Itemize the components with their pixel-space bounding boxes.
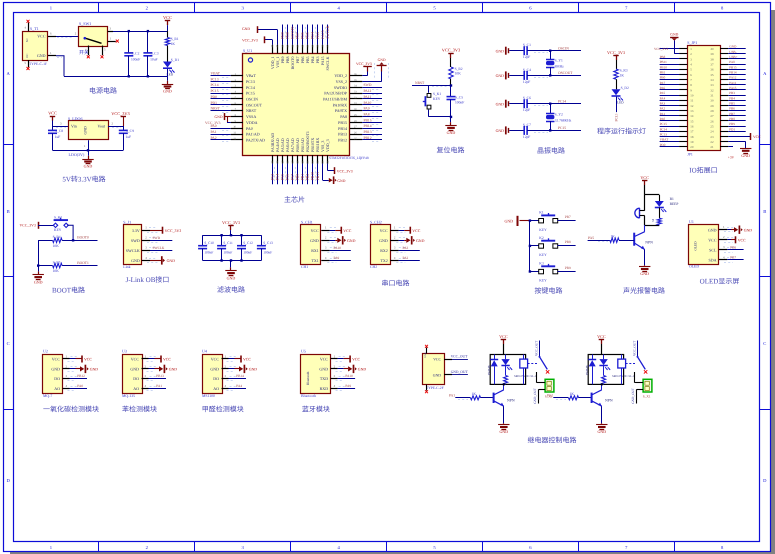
svg-text:AO: AO [213,386,219,391]
svg-text:VDD_2: VDD_2 [334,73,347,78]
svg-text:25: 25 [710,125,714,129]
svg-text:GND: GND [499,429,508,434]
svg-text:J-Link OB接口: J-Link OB接口 [126,276,170,284]
svg-text:PB7: PB7 [565,215,571,219]
svg-text:PA8: PA8 [340,114,347,119]
svg-text:VCC: VCC [499,334,508,339]
svg-text:PB15: PB15 [364,118,372,122]
svg-text:VCC: VCC [753,135,761,139]
svg-text:NRST: NRST [415,81,425,85]
svg-text:1K: 1K [472,392,477,396]
svg-text:VCC: VCC [211,357,220,362]
svg-text:JP1: JP1 [687,152,693,156]
svg-text:PB4: PB4 [729,96,735,100]
svg-text:IO拓展口: IO拓展口 [689,166,717,174]
svg-text:PC14: PC14 [660,127,668,131]
svg-text:OSCIN: OSCIN [246,97,258,102]
svg-text:K3: K3 [539,262,544,266]
svg-text:TYPE-C-1F: TYPE-C-1F [29,62,47,66]
svg-text:甲醛检测模块: 甲醛检测模块 [202,406,244,414]
svg-text:VCC: VCC [311,228,320,233]
svg-text:35: 35 [710,73,714,77]
svg-text:VCC_3V3: VCC_3V3 [654,47,668,51]
svg-text:VCC: VCC [352,358,360,362]
svg-text:PB11: PB11 [316,172,320,180]
svg-text:S_C13: S_C13 [263,241,273,245]
svg-text:PA0: PA0 [660,117,666,121]
svg-text:S_U1: S_U1 [243,48,252,53]
svg-text:PA2TX\AD: PA2TX\AD [246,137,265,142]
svg-text:VCC: VCC [380,228,389,233]
svg-text:10K: 10K [455,72,462,76]
svg-text:PB6: PB6 [729,107,735,111]
svg-text:S_SW1: S_SW1 [79,21,91,26]
svg-text:PA11: PA11 [729,81,736,85]
svg-text:VCC_3V3: VCC_3V3 [242,38,258,42]
svg-text:S_D2: S_D2 [621,86,629,90]
svg-text:KEY: KEY [54,228,62,232]
svg-text:Vin: Vin [71,124,77,129]
svg-text:SWDIO: SWDIO [334,85,347,90]
svg-text:RX2: RX2 [380,248,388,253]
svg-text:GND: GND [744,228,753,232]
svg-text:NRST: NRST [246,108,257,113]
svg-text:GND: GND [347,239,356,243]
svg-text:电源电路: 电源电路 [89,87,117,95]
svg-text:GND: GND [729,45,737,49]
svg-text:晶振电路: 晶振电路 [537,147,565,155]
svg-text:PC14: PC14 [246,85,255,90]
svg-text:苯检测模块: 苯检测模块 [122,406,157,414]
svg-text:PA12: PA12 [364,89,372,93]
svg-text:10K: 10K [53,244,60,248]
svg-text:主芯片: 主芯片 [284,196,305,204]
svg-text:SWD: SWD [131,238,140,243]
svg-text:S_R1: S_R1 [171,37,179,41]
svg-text:S_JP1: S_JP1 [687,40,697,45]
svg-text:PB12: PB12 [338,137,347,142]
svg-text:滤波电路: 滤波电路 [217,286,245,294]
svg-text:PB13: PB13 [364,130,372,134]
svg-text:PB9: PB9 [729,122,735,126]
svg-text:PD0: PD0 [660,143,666,147]
svg-text:38: 38 [710,57,714,61]
svg-text:OLED: OLED [694,241,698,251]
svg-text:TX2: TX2 [380,258,387,263]
svg-text:VBAT: VBAT [660,138,669,142]
svg-text:S_C12: S_C12 [243,241,253,245]
svg-text:PA2: PA2 [660,107,666,111]
svg-text:GND: GND [310,238,319,243]
svg-text:PB6: PB6 [301,32,305,39]
svg-text:1K: 1K [171,42,176,46]
svg-text:10: 10 [690,94,694,98]
svg-text:PC15: PC15 [660,122,668,126]
svg-text:21: 21 [710,145,714,149]
svg-text:PB8: PB8 [565,240,571,244]
svg-text:U1: U1 [689,219,694,224]
svg-text:SCL: SCL [709,247,717,252]
svg-text:Bluetooth: Bluetooth [306,371,310,385]
svg-text:SWCLK: SWCLK [326,25,330,39]
svg-text:PB12: PB12 [77,374,85,378]
svg-text:GND: GND [496,129,505,133]
svg-text:PB8: PB8 [660,55,666,59]
svg-text:8MHz: 8MHz [555,65,565,69]
svg-text:Vout: Vout [98,124,106,129]
svg-text:VCC: VCC [433,358,441,362]
svg-text:100nF: 100nF [204,251,213,255]
svg-text:PA15: PA15 [321,30,325,38]
svg-text:VCC: VCC [163,358,171,362]
svg-text:PB13: PB13 [156,374,164,378]
svg-text:GND: GND [358,368,367,372]
svg-text:继电器控制电路: 继电器控制电路 [528,436,577,444]
svg-text:PB15: PB15 [729,65,737,69]
svg-text:PB12: PB12 [364,136,372,140]
svg-text:15: 15 [690,119,694,123]
svg-text:S_R2: S_R2 [455,67,463,71]
svg-text:PA1: PA1 [156,384,162,388]
svg-text:GND: GND [131,258,140,263]
svg-text:PB0: PB0 [296,174,300,181]
svg-text:DO: DO [133,376,139,381]
svg-text:GND: GND [741,153,750,158]
svg-text:19: 19 [690,140,694,144]
svg-text:PB6: PB6 [730,246,736,250]
svg-text:PB14: PB14 [236,374,244,378]
svg-text:NC: NC [26,54,29,58]
svg-text:PA7: PA7 [291,174,295,181]
svg-text:U4: U4 [202,349,207,354]
svg-text:GND: GND [34,279,43,284]
svg-text:USB-: USB- [729,50,737,54]
svg-text:1uF: 1uF [55,135,61,139]
svg-text:27: 27 [710,114,714,118]
svg-text:GND: GND [379,238,388,243]
svg-text:PB13: PB13 [338,132,347,137]
svg-text:NPN: NPN [507,399,515,403]
svg-text:声光报警电路: 声光报警电路 [623,287,665,295]
svg-text:VCC: VCC [84,358,92,362]
svg-text:VBaT: VBaT [246,73,256,78]
svg-text:CH2: CH2 [370,265,377,269]
svg-text:PB7: PB7 [729,112,735,116]
svg-text:PA10: PA10 [345,374,353,378]
svg-text:PA2: PA2 [547,393,553,397]
svg-text:LED: LED [617,101,624,105]
svg-text:VCC_3V3: VCC_3V3 [607,50,625,55]
svg-text:GND: GND [433,374,441,378]
svg-text:U5: U5 [301,349,306,354]
svg-text:PB14: PB14 [338,126,347,131]
svg-text:PA9: PA9 [334,256,340,260]
svg-text:34: 34 [710,78,714,82]
svg-text:VCC: VCC [738,238,746,242]
svg-text:VCC: VCC [708,237,717,242]
svg-text:VSSA: VSSA [246,114,256,119]
svg-text:37: 37 [710,63,714,67]
svg-text:3.3V: 3.3V [132,228,140,233]
svg-text:OLED显示屏: OLED显示屏 [700,278,740,286]
svg-text:BOOT0: BOOT0 [291,26,295,38]
svg-text:S_CH2: S_CH2 [370,220,382,225]
svg-text:S_K1: S_K1 [433,92,441,96]
svg-text:GND_OUT: GND_OUT [451,370,469,374]
svg-text:PC13: PC13 [211,77,219,81]
svg-text:OLED: OLED [689,265,699,269]
svg-text:GND: GND [249,368,258,372]
svg-text:NC: NC [26,38,29,42]
svg-text:PA9: PA9 [364,107,370,111]
svg-text:100nF: 100nF [131,57,140,61]
svg-text:GND: GND [84,164,93,169]
svg-text:36: 36 [710,68,714,72]
svg-text:GND: GND [378,58,386,62]
svg-text:PA5: PA5 [281,174,285,181]
svg-text:MQ-135: MQ-135 [122,394,135,398]
svg-text:K2: K2 [539,236,544,240]
svg-text:VCC_3V3: VCC_3V3 [165,229,182,233]
svg-text:PA5: PA5 [588,236,594,240]
svg-text:PA5: PA5 [660,91,666,95]
svg-text:PA4: PA4 [660,96,666,100]
svg-text:24: 24 [710,130,714,134]
svg-text:PB0: PB0 [660,76,666,80]
svg-text:PB9: PB9 [565,266,571,270]
svg-text:PC14: PC14 [211,83,219,87]
svg-text:PB7: PB7 [296,32,300,39]
svg-text:程序运行指示灯: 程序运行指示灯 [597,127,646,135]
svg-text:GND: GND [319,367,328,372]
svg-text:Link: Link [123,265,130,269]
svg-text:VCC: VCC [163,15,172,20]
svg-text:12pF: 12pF [523,108,530,112]
svg-text:12pF: 12pF [523,80,530,84]
svg-text:PC13: PC13 [614,113,618,121]
svg-text:PA9: PA9 [345,384,351,388]
svg-text:32.768KHz: 32.768KHz [555,119,572,123]
svg-text:PA6: PA6 [286,174,290,181]
svg-text:PC13: PC13 [660,133,668,137]
svg-text:BOOT0: BOOT0 [77,236,89,240]
svg-text:MS1100: MS1100 [202,394,215,398]
svg-text:VCC: VCC [343,229,351,233]
svg-text:PB3: PB3 [729,91,735,95]
svg-text:PA0: PA0 [246,126,253,131]
svg-text:PA12USB/DP: PA12USB/DP [324,91,348,96]
svg-text:18: 18 [690,135,694,139]
svg-text:PA3: PA3 [660,102,666,106]
svg-text:PB4: PB4 [311,32,315,39]
svg-text:GND: GND [416,239,425,243]
svg-text:GND: GND [215,115,223,119]
svg-text:PC13: PC13 [246,79,255,84]
svg-text:S_D1: S_D1 [171,58,179,62]
svg-text:30: 30 [710,99,714,103]
svg-text:一氧化碳检测模块: 一氧化碳检测模块 [43,406,99,414]
svg-text:PB15: PB15 [338,120,347,125]
svg-text:GND: GND [169,368,178,372]
svg-text:VCC: VCC [640,175,649,180]
svg-text:S_C4: S_C4 [523,68,531,72]
svg-text:GND: GND [210,367,219,372]
svg-text:BEEP: BEEP [670,202,679,206]
svg-text:1K: 1K [611,234,616,238]
svg-text:U2: U2 [43,349,48,354]
svg-text:VCC_3V3: VCC_3V3 [111,111,129,116]
svg-text:GND: GND [337,179,345,183]
svg-text:GND: GND [167,259,176,263]
svg-text:GND: GND [496,102,505,106]
svg-text:复位电路: 复位电路 [437,146,465,154]
svg-text:PA10: PA10 [334,246,342,250]
svg-text:S_C5: S_C5 [455,95,463,99]
svg-text:PA1: PA1 [211,130,217,134]
svg-text:GND: GND [90,368,99,372]
svg-text:PB8: PB8 [729,117,735,121]
svg-text:GND: GND [496,74,505,78]
svg-text:PA9TX: PA9TX [335,108,347,113]
svg-text:PA1: PA1 [660,112,666,116]
svg-text:32: 32 [710,88,714,92]
svg-text:PA2: PA2 [403,256,409,260]
svg-text:DO: DO [213,376,219,381]
svg-text:PB9: PB9 [281,32,285,39]
svg-text:PD1: PD1 [729,127,735,131]
svg-text:S_C3: S_C3 [151,52,159,56]
svg-text:PA8: PA8 [364,112,370,116]
svg-text:PB10: PB10 [311,172,315,181]
svg-text:GND: GND [51,367,60,372]
svg-text:VCC: VCC [597,334,606,339]
svg-text:RX1: RX1 [311,248,319,253]
svg-text:VCC_OUT: VCC_OUT [535,341,539,356]
svg-text:PB7: PB7 [730,256,736,260]
svg-text:1N4148: 1N4148 [585,365,589,375]
svg-text:16: 16 [690,125,694,129]
svg-text:PA0: PA0 [77,384,83,388]
svg-text:GND: GND [670,33,678,37]
svg-text:GND_OUT: GND_OUT [533,388,537,404]
svg-text:100nF: 100nF [243,251,252,255]
svg-text:22: 22 [710,140,714,144]
svg-text:VSS_2: VSS_2 [336,79,347,84]
svg-text:AO: AO [133,386,139,391]
svg-text:TYPE-C-2F: TYPE-C-2F [426,386,444,390]
svg-text:按键电路: 按键电路 [535,287,563,295]
svg-text:S_C8: S_C8 [55,129,63,133]
svg-text:SWD: SWD [153,236,161,240]
svg-text:USB+: USB+ [729,55,737,59]
svg-text:PA3: PA3 [271,174,275,181]
svg-text:12pF: 12pF [523,55,530,59]
svg-text:GND: GND [640,271,649,276]
svg-text:S_C11: S_C11 [223,241,233,245]
svg-text:PB14: PB14 [364,124,372,128]
svg-text:TXD: TXD [320,376,328,381]
svg-text:NPN: NPN [605,399,613,403]
svg-text:GND: GND [447,130,456,135]
svg-text:S_R5: S_R5 [53,261,61,265]
svg-text:10uF: 10uF [150,57,157,61]
svg-text:PA8: PA8 [729,60,735,64]
svg-text:17: 17 [690,130,694,134]
svg-text:20: 20 [690,145,694,149]
svg-text:GND: GND [242,27,250,31]
svg-text:PB11: PB11 [660,60,668,64]
svg-text:GND: GND [163,89,172,94]
svg-text:VCC: VCC [412,229,420,233]
svg-text:S_T1: S_T1 [30,26,39,31]
svg-text:S_X1: S_X1 [643,395,651,399]
svg-text:PC15: PC15 [211,89,219,93]
svg-text:PA10: PA10 [364,101,372,105]
svg-text:GND: GND [505,219,514,224]
svg-text:GND: GND [84,126,88,134]
svg-text:VCC: VCC [131,357,140,362]
svg-text:S_C2: S_C2 [131,52,139,56]
svg-text:S_K2: S_K2 [54,215,62,219]
svg-text:1K: 1K [570,392,575,396]
svg-text:VCC_OUT: VCC_OUT [451,354,468,358]
svg-text:12pF: 12pF [523,135,530,139]
svg-text:PA10RX: PA10RX [333,102,347,107]
svg-text:PB5: PB5 [306,32,310,39]
svg-text:KEY: KEY [433,97,441,101]
svg-text:S_C7: S_C7 [523,123,531,127]
svg-text:SWD: SWD [364,83,372,87]
svg-text:PB3: PB3 [316,32,320,39]
svg-text:VBAT: VBAT [211,72,221,76]
svg-text:SDA: SDA [708,258,716,263]
svg-text:100nF: 100nF [455,101,464,105]
svg-text:VCC: VCC [243,358,251,362]
svg-text:AO: AO [54,386,60,391]
svg-text:BOOT1: BOOT1 [77,261,89,265]
svg-text:PA0: PA0 [211,124,217,128]
svg-text:S_CH1: S_CH1 [301,220,313,225]
svg-text:VCC_3V3: VCC_3V3 [442,48,460,53]
svg-text:28: 28 [710,109,714,113]
svg-text:+3V: +3V [728,156,735,160]
svg-text:12: 12 [690,104,694,108]
svg-text:33: 33 [710,83,714,87]
svg-text:PA12: PA12 [729,76,737,80]
svg-text:PB10: PB10 [660,65,668,69]
svg-text:SRD-05VDC-SL-C: SRD-05VDC-SL-C [612,374,635,378]
svg-text:S_Y1: S_Y1 [555,58,563,62]
svg-text:PA15: PA15 [729,86,737,90]
svg-text:K1: K1 [539,211,544,215]
svg-text:M: M [651,219,655,222]
svg-text:PB1: PB1 [660,71,666,75]
svg-text:PC15: PC15 [558,126,566,130]
svg-text:S_J1: S_J1 [123,220,131,225]
svg-text:1K: 1K [620,73,625,77]
svg-text:S_R4: S_R4 [53,235,61,239]
svg-text:PC15: PC15 [246,91,255,96]
svg-text:STM32F103C8T6_LQFP48: STM32F103C8T6_LQFP48 [329,156,369,160]
svg-text:PB5: PB5 [729,102,735,106]
svg-text:Bluetooth: Bluetooth [301,394,316,398]
svg-text:5V转3.3V电路: 5V转3.3V电路 [62,176,105,184]
svg-text:CH1: CH1 [301,265,308,269]
svg-text:SRD-05VDC-SL-C: SRD-05VDC-SL-C [514,374,537,378]
svg-text:GND: GND [597,429,606,434]
svg-text:PA2: PA2 [211,136,217,140]
svg-text:BOOT电路: BOOT电路 [52,286,85,294]
